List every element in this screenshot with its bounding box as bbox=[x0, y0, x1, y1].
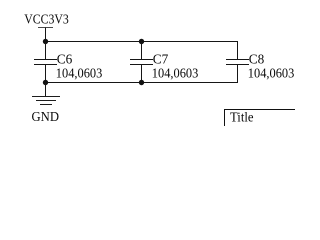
svg-text:104,0603: 104,0603 bbox=[56, 65, 103, 80]
title block top border line bbox=[224, 109, 295, 111]
ground symbol bars bbox=[32, 97, 60, 105]
wire bottom rail bbox=[45, 82, 238, 84]
wire top rail bbox=[45, 41, 238, 43]
svg-text:GND: GND bbox=[32, 109, 60, 124]
capacitor C6 plates bbox=[34, 60, 57, 65]
capacitor C8 top lead wire bbox=[237, 42, 239, 60]
svg-text:104,0603: 104,0603 bbox=[248, 65, 295, 80]
capacitor C6 bottom lead wire bbox=[45, 65, 47, 83]
capacitor C8 bottom lead wire bbox=[237, 65, 239, 83]
power symbol VCC3V3 bar bbox=[38, 27, 53, 29]
node junction bottom-left bbox=[43, 80, 48, 85]
node junction bottom-middle bbox=[139, 80, 144, 85]
node junction top-middle bbox=[139, 39, 144, 44]
node junction top-left bbox=[43, 39, 48, 44]
capacitor C7 top lead wire bbox=[141, 42, 143, 60]
svg-text:C7: C7 bbox=[153, 52, 169, 67]
capacitor C8 plates bbox=[226, 60, 249, 65]
svg-text:C6: C6 bbox=[57, 52, 73, 67]
svg-text:VCC3V3: VCC3V3 bbox=[24, 12, 69, 27]
ground stem wire bbox=[45, 83, 47, 97]
svg-text:Title: Title bbox=[230, 109, 254, 124]
capacitor C7 bottom lead wire bbox=[141, 65, 143, 83]
capacitor C6 top lead wire bbox=[45, 42, 47, 60]
capacitor C7 plates bbox=[130, 60, 153, 65]
title block left border line bbox=[224, 109, 226, 126]
svg-text:C8: C8 bbox=[249, 52, 265, 67]
svg-text:104,0603: 104,0603 bbox=[152, 65, 199, 80]
power symbol stem wire bbox=[45, 28, 47, 42]
